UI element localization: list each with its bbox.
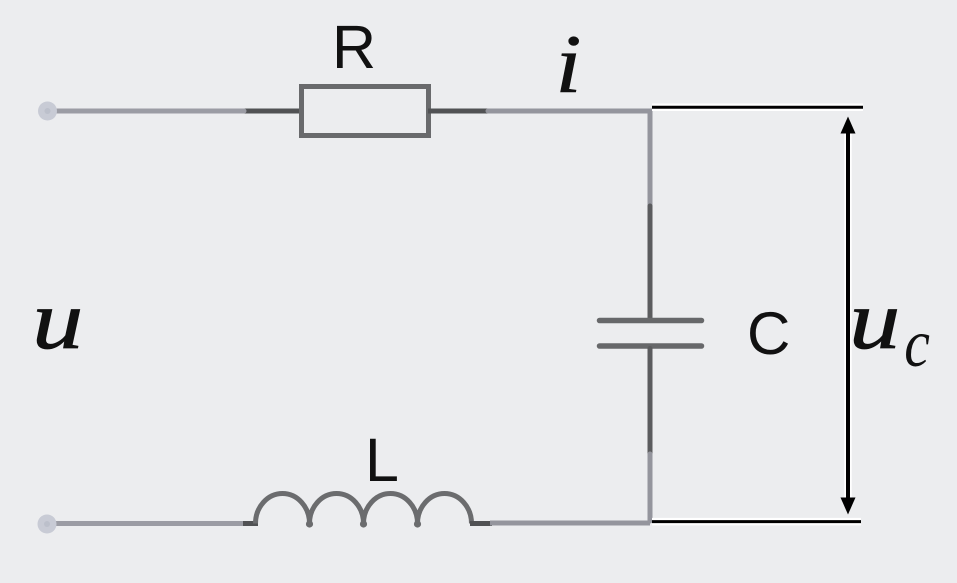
svg-text:L: L	[365, 426, 399, 494]
svg-text:R: R	[332, 13, 376, 81]
svg-text:i: i	[555, 19, 581, 111]
svg-text:C: C	[747, 300, 790, 367]
svg-text:c: c	[904, 306, 930, 381]
svg-text:u: u	[32, 274, 83, 366]
svg-text:u: u	[849, 274, 900, 366]
